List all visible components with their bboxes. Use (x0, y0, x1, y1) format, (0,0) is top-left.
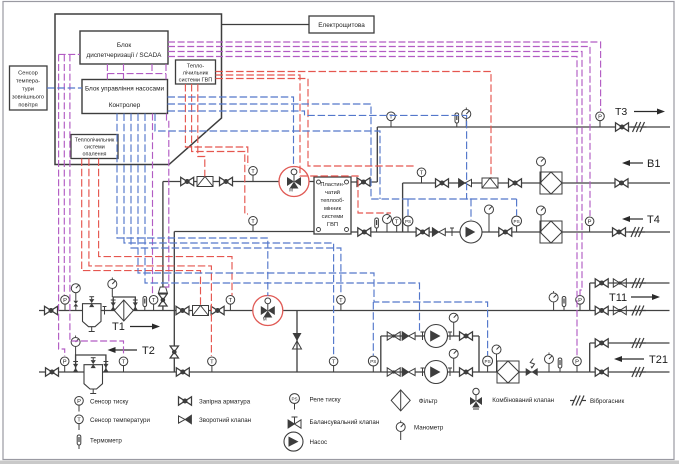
temperature sensor T (149, 296, 158, 311)
wire SCADA-controller link 2 (123, 64, 125, 80)
pressure sensor P (576, 296, 585, 311)
manometer (383, 213, 392, 233)
riser HX return down to T2 (173, 232, 175, 373)
lower: valve (460, 368, 473, 376)
svg-text:Блок управління насосами: Блок управління насосами (85, 85, 165, 93)
legend vibration damper (570, 396, 624, 406)
vibration damper (629, 227, 645, 237)
wire heating meter to T sensor on T1 (99, 159, 232, 296)
svg-text:мінник: мінник (324, 206, 342, 212)
box Електрощитова (309, 16, 374, 33)
combined (safety) valve (526, 359, 538, 377)
wire to T sensor on T2 right (124, 114, 334, 357)
svg-text:Запірна арматура: Запірна арматура (199, 399, 251, 406)
wire to DHW circulation pump (168, 111, 472, 220)
label T21 (614, 354, 668, 366)
upper: valve (595, 339, 608, 347)
wire to P sensor on T11 (168, 52, 582, 296)
temperature sensor T (329, 357, 338, 372)
bus over DHW pump PS pair (408, 198, 517, 200)
upper: vibration damper (630, 338, 646, 348)
wire to P sensor on T4 (168, 47, 590, 217)
thermometer (143, 297, 147, 311)
temperature sensor T (417, 168, 426, 183)
T21 upper branch (590, 342, 670, 344)
svg-text:Зворотний клапан: Зворотний клапан (199, 417, 251, 424)
lower: check valve (402, 368, 415, 377)
pipe B1 cold water (y=183) (403, 182, 670, 184)
heating pumps: right riser (478, 336, 480, 372)
3-way mixing valve M1 (red circled) (279, 167, 309, 197)
heating pumps: left riser (380, 336, 382, 372)
union (103, 307, 107, 315)
wire GVP meter to cold water flow meter (216, 72, 492, 178)
valve (613, 228, 626, 236)
svg-text:Насос: Насос (310, 439, 328, 446)
svg-text:Реле тиску: Реле тиску (310, 397, 342, 404)
riser to T3 (376, 127, 378, 182)
wire SCADA-controller link 1 (106, 64, 108, 80)
lower: valve (387, 368, 400, 376)
pressure switch PS (512, 216, 522, 232)
upper: balancing valve (613, 279, 626, 287)
upper: union (421, 332, 425, 340)
legend shut-off valve (179, 397, 251, 406)
temperature sensor T (392, 217, 401, 232)
manometer (485, 205, 494, 232)
pipe T3 (y=127) (377, 126, 670, 128)
valve (509, 179, 522, 187)
thermometer (455, 113, 459, 127)
valve (499, 228, 512, 236)
lower: vibration damper (630, 367, 646, 377)
T1 filter bypass bridge (113, 297, 135, 311)
valve (176, 368, 189, 376)
wire GVP meter to primary flow meter (198, 84, 205, 177)
svg-text:Т2: Т2 (142, 345, 155, 357)
valve (416, 228, 429, 236)
wire container to electrical room box (222, 24, 310, 26)
wire to DHW pressure switch bus (168, 104, 409, 199)
valve (616, 123, 629, 131)
T2 strainer bypass bridge (76, 355, 106, 372)
wire to heating pump 1 (145, 114, 420, 333)
valve V4 (181, 177, 194, 185)
T11 lower branch (590, 310, 670, 312)
upper: valve (460, 332, 473, 340)
check valve on bypass riser (293, 333, 302, 349)
temperature sensor T (337, 296, 346, 311)
pressure switch PS (368, 356, 378, 372)
upper: vibration damper (630, 278, 646, 288)
manometer (549, 291, 558, 311)
control cabinet container outline (55, 14, 222, 165)
svg-text:Манометр: Манометр (414, 425, 444, 432)
svg-text:Комбінований клапан: Комбінований клапан (492, 397, 554, 404)
svg-text:диспетчеризації / SCADA: диспетчеризації / SCADA (87, 51, 163, 59)
lower: union (448, 368, 452, 376)
small valve on T1 vessel top (89, 297, 94, 307)
lower: union (421, 368, 425, 376)
pressure sensor P (60, 357, 69, 372)
legend manometer (396, 421, 444, 441)
drop to PS left of pumps (372, 302, 374, 356)
label T2 (108, 345, 155, 357)
label T11 (609, 292, 660, 304)
wire heating meter to T1 flow meter (82, 159, 201, 306)
heating pumps: upper branch (381, 335, 479, 337)
pressure sensor P (573, 357, 582, 372)
svg-text:Електрощитова: Електрощитова (318, 22, 365, 29)
svg-text:Сенсор температури: Сенсор температури (90, 417, 150, 424)
thermometer (562, 297, 566, 311)
temperature sensor T (226, 296, 235, 311)
pressure switch PS (403, 216, 413, 232)
wire to mixing valve M2 actuator (117, 114, 268, 297)
svg-text:ГВП: ГВП (327, 222, 338, 228)
svg-text:опалення: опалення (83, 152, 107, 158)
small valve filter bypass right (133, 300, 138, 310)
label T4 (622, 214, 660, 226)
legend combined valve (470, 388, 554, 409)
svg-text:системи: системи (322, 214, 344, 220)
valve (358, 228, 371, 236)
pipe T1 supply (y=310.5) (39, 310, 590, 312)
wire outdoor sensor to controller (47, 87, 82, 89)
wire GVP meter to T sensor on T4 (216, 75, 392, 213)
label B1 (622, 158, 660, 170)
small valve bridge left (73, 362, 78, 372)
pipe HX primary return (y=231.5) (174, 231, 314, 233)
temperature sensor T (119, 357, 128, 372)
valve on HX outlet (357, 178, 370, 186)
svg-text:чатий: чатий (325, 189, 340, 196)
svg-text:Балансувальний клапан: Балансувальний клапан (310, 419, 380, 426)
upper: union (448, 332, 452, 340)
manometer on bridge (108, 278, 117, 298)
svg-text:системи: системи (84, 145, 105, 151)
temperature sensor T (208, 357, 217, 372)
wire SCADA-controller link 4 (165, 64, 167, 80)
legend balancing valve (288, 417, 379, 428)
bottom window strip (0, 461, 679, 464)
valve (46, 368, 59, 376)
T21 riser (589, 343, 591, 372)
svg-text:тури: тури (22, 87, 34, 93)
manometer on bridge (71, 336, 80, 356)
label T3 (615, 106, 665, 118)
filter (square) with manometer (537, 206, 563, 243)
pump N2 (425, 361, 448, 384)
legend pressure switch (290, 394, 342, 410)
pressure switch PS after pumps (483, 356, 493, 372)
wire GVP meter to T sensor on B1 (216, 79, 417, 167)
upper: check valve (402, 332, 415, 341)
lower: valve (595, 368, 608, 376)
wire SCADA left-side bus (59, 53, 80, 55)
svg-text:Фільтр: Фільтр (419, 398, 438, 405)
T11 upper branch (590, 282, 670, 284)
wire to P sensor on T1 (63, 54, 65, 295)
pressure sensor P (596, 112, 605, 127)
riser B1 down to T4 (402, 183, 404, 232)
flow meter (cold water) (482, 178, 498, 188)
small valve bridge right (103, 362, 108, 372)
riser mixing line to T1 (162, 182, 164, 311)
wire to T sensor on T1 right (131, 114, 341, 296)
pipe HX top outlet to T3 riser (351, 181, 377, 183)
svg-text:зовнішнього: зовнішнього (12, 95, 44, 101)
wire GVP meter to T sensor on mixing line (185, 84, 247, 166)
vibration damper (631, 122, 647, 132)
svg-text:Т21: Т21 (649, 354, 668, 366)
3-way mixing valve M2 (red circled) (253, 296, 283, 326)
upper: valve (595, 279, 608, 287)
box Тепло-лічильник системи ГВП (176, 60, 216, 84)
box Теплолічильник системи опалення (71, 135, 118, 159)
wire to T sensor on T2 (70, 54, 124, 356)
svg-text:системи ГВП: системи ГВП (179, 78, 213, 84)
temperature sensor T (249, 167, 258, 182)
wire to P sensor on T3 (168, 42, 601, 111)
filter (square) with manometer (537, 157, 563, 194)
box Блок диспетчеризації / SCADA (80, 31, 168, 64)
box Пластинчатий теплообмінник системи ГВП (heat exchanger U1) (314, 177, 351, 234)
svg-text:Блок: Блок (117, 42, 131, 49)
wire heating meter to T sensor on T2 (89, 159, 211, 357)
pipe mixing line to HX (y=181.5) (163, 181, 314, 183)
pipe T4 circulation (y=232) (351, 231, 670, 233)
dirt separator vessel on T1 (83, 304, 102, 332)
filter F1 (diamond) (114, 300, 133, 321)
legend pressure sensor (75, 397, 130, 412)
flow meter (heating) (193, 306, 209, 316)
box Блок управління насосами / Контролер (82, 80, 168, 114)
small valve filter bypass left (111, 300, 116, 310)
wire to mixing valve M1 actuator (168, 97, 294, 167)
bypass riser with check valve (296, 311, 298, 373)
shut-off valve on HX return riser (170, 346, 178, 358)
box Сенсор температури зовнішнього повітря (10, 66, 48, 110)
legend filter (391, 390, 438, 411)
drop to PS on T4 right (516, 199, 518, 216)
circulation pump N3 (460, 221, 482, 243)
thermometer (558, 358, 562, 372)
control valve with actuator on mixing riser (158, 287, 167, 306)
svg-text:повітря: повітря (18, 103, 37, 109)
svg-text:В1: В1 (647, 158, 660, 170)
wire SCADA-controller link 3 (151, 64, 153, 74)
wire to P sensor on T2 (59, 54, 65, 356)
legend thermometer (77, 435, 122, 449)
lower: balancing valve (613, 306, 626, 314)
valve (615, 179, 628, 187)
legend pump (284, 432, 327, 451)
wire to control valve actuator (164, 114, 169, 288)
temperature sensor T on HX return (249, 217, 258, 232)
lower: manometer (449, 349, 458, 372)
check valve (432, 228, 445, 237)
svg-text:Термометр: Термометр (90, 438, 122, 445)
manometer (545, 353, 554, 373)
svg-text:лічильник: лічильник (183, 71, 209, 77)
upper: valve (387, 332, 400, 340)
manometer (462, 108, 471, 128)
upper: manometer (449, 313, 458, 336)
dirt separator vessel on T2 (84, 365, 103, 394)
thermometer (375, 218, 379, 232)
valve V1 (45, 306, 58, 314)
wire to heating PS pair (138, 114, 488, 356)
wire to T sensor on T1 (152, 114, 154, 295)
filter (square) on T21 (497, 361, 519, 383)
wire to P sensor on T21 (168, 57, 577, 357)
label T1 (112, 321, 160, 333)
manometer with cock (71, 284, 80, 311)
svg-text:Тепло-: Тепло- (187, 64, 205, 70)
svg-text:Т4: Т4 (647, 214, 660, 226)
T21 lower branch (590, 371, 670, 373)
lower: vibration damper (630, 306, 646, 316)
svg-text:темпера-: темпера- (16, 79, 40, 85)
valve V3 (211, 306, 224, 314)
svg-text:Сенсор: Сенсор (18, 71, 38, 77)
valve V5 (220, 177, 233, 185)
svg-text:Т1: Т1 (112, 321, 125, 333)
wire SCADA bus to controller (107, 73, 166, 75)
svg-text:Контролер: Контролер (109, 102, 141, 109)
svg-text:теплооб-: теплооб- (321, 198, 345, 204)
valve V2 (176, 306, 189, 314)
lower: valve (595, 306, 608, 314)
T11 riser (589, 283, 591, 311)
svg-text:Т3: Т3 (615, 106, 627, 118)
pressure sensor P (585, 217, 594, 232)
drop to PS on T4 left (407, 199, 409, 216)
svg-text:Т11: Т11 (609, 292, 627, 304)
svg-text:Сенсор тиску: Сенсор тиску (90, 399, 129, 406)
svg-text:Пластин-: Пластин- (320, 182, 344, 188)
check valve (459, 179, 472, 188)
manometer (492, 345, 501, 372)
pipe T2 return (y=372) (39, 371, 590, 373)
flow meter (GVP primary) (197, 177, 213, 187)
union (450, 228, 454, 236)
pump N1 (425, 325, 448, 348)
temperature sensor T (387, 112, 396, 127)
svg-text:Теплолічильник: Теплолічильник (75, 138, 115, 144)
valve (436, 179, 449, 187)
wire feed to PS bus 2 (155, 114, 380, 200)
wire GVP meter to T sensor on HX return (192, 84, 248, 214)
small valve on T2 vessel top (91, 358, 96, 368)
pressure sensor P (61, 296, 70, 311)
legend temperature sensor (75, 415, 151, 430)
svg-text:Віброгасник: Віброгасник (590, 398, 624, 405)
legend check valve (179, 415, 252, 424)
